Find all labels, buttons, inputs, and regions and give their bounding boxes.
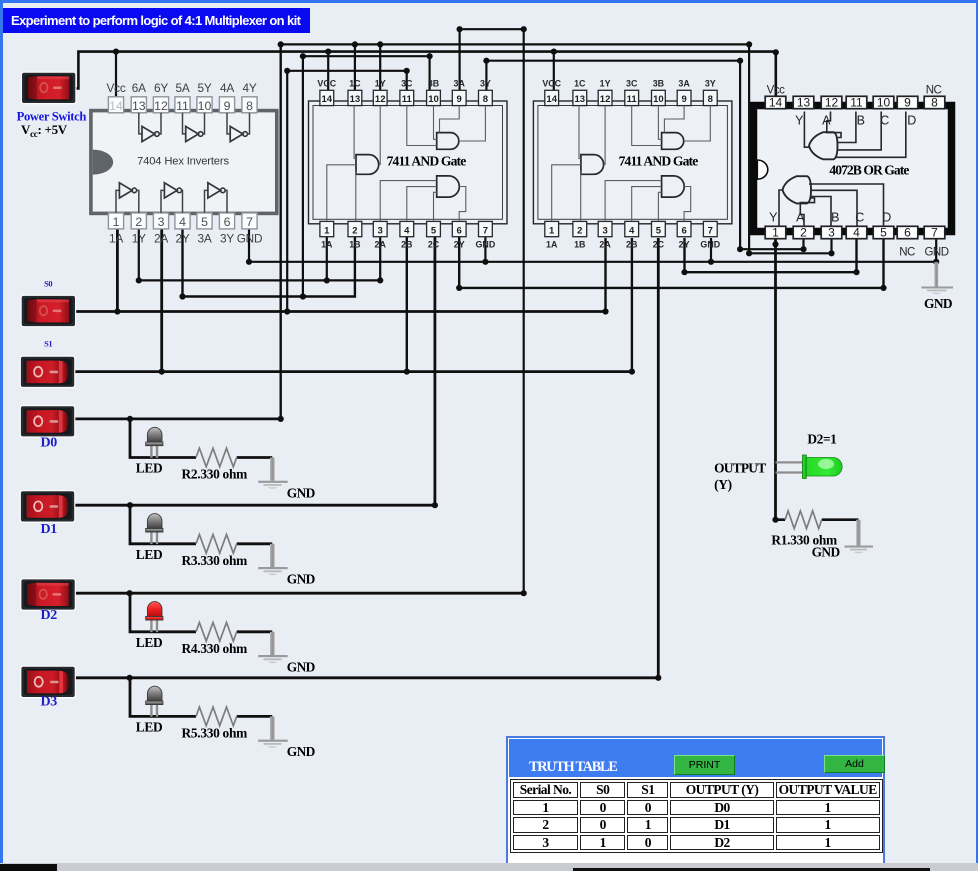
wire rail-A to U4 pin 3 input B	[749, 44, 831, 253]
wire S1 row up to U2 pin 4	[406, 237, 408, 372]
AND gate U2c (3A,3B,3C to 3Y)	[407, 106, 486, 150]
LED indicator for D2 (lit red)	[146, 602, 163, 633]
OR gate U4b (lower) with input routing	[779, 176, 884, 226]
rocker switch D1 (off)	[20, 490, 76, 523]
svg-text:12: 12	[825, 96, 839, 110]
svg-text:1Y: 1Y	[132, 232, 146, 246]
wire S1 switch row	[74, 370, 632, 373]
svg-text:13: 13	[132, 99, 146, 113]
svg-text:14: 14	[109, 99, 123, 113]
svg-text:10: 10	[428, 94, 439, 105]
wire D0 bus rail	[281, 43, 749, 45]
svg-text:7411 AND Gate: 7411 AND Gate	[619, 153, 699, 168]
svg-text:3C: 3C	[401, 78, 413, 88]
svg-text:14: 14	[546, 94, 557, 105]
svg-text:LED: LED	[136, 635, 163, 650]
ground symbol for output branch	[845, 520, 874, 554]
svg-text:D3: D3	[40, 694, 57, 709]
svg-text:GND: GND	[924, 246, 948, 258]
svg-text:2C: 2C	[653, 240, 665, 250]
svg-text:7411 AND Gate: 7411 AND Gate	[387, 153, 467, 168]
svg-text:2B: 2B	[401, 240, 412, 250]
svg-text:11: 11	[850, 96, 863, 110]
rocker switch S0 (on)	[21, 295, 77, 328]
svg-text:3C: 3C	[626, 78, 638, 88]
junction nodes on 3Y rail	[483, 58, 806, 253]
svg-text:9: 9	[457, 94, 462, 105]
wire D2 LED-resistor branch	[130, 593, 272, 632]
svg-text:14: 14	[769, 96, 783, 110]
svg-text:OUTPUT: OUTPUT	[714, 460, 766, 475]
wire S0 row up to U1 pin 1	[116, 230, 119, 312]
rocker switch S1 (off)	[20, 356, 76, 389]
svg-text:Y: Y	[769, 211, 778, 225]
junction nodes on D2-3A rail	[457, 26, 527, 32]
IC U1 7404 Hex Inverters	[17, 72, 953, 760]
svg-text:7: 7	[708, 225, 713, 236]
svg-text:Vcc: +5V: Vcc: +5V	[21, 122, 68, 139]
wire S1 row up to U3 pin 4	[631, 238, 633, 372]
wire D0 switch row	[74, 417, 281, 420]
wire D2 switch row	[75, 592, 524, 595]
svg-text:1C: 1C	[574, 78, 586, 88]
inverter gate U1-4 (pins 9 to 8)	[227, 113, 250, 142]
junction nodes on S0 row	[114, 308, 608, 314]
resistor R5 330 ohm for D3	[196, 707, 237, 726]
svg-text:6: 6	[457, 225, 462, 236]
svg-text:NC: NC	[899, 246, 915, 258]
svg-text:10: 10	[198, 99, 212, 113]
rocker switch D3 (off)	[20, 666, 76, 699]
wire S0 row up to U3 pin 3	[604, 238, 606, 312]
svg-text:4: 4	[179, 215, 186, 229]
svg-text:2A: 2A	[154, 232, 168, 246]
output LED legs	[776, 462, 805, 472]
wire D0 LED-resistor branch	[130, 419, 272, 458]
junction nodes on GND bus	[246, 259, 939, 265]
svg-text:2Y: 2Y	[175, 232, 189, 246]
wire D3 switch row	[75, 238, 659, 678]
ground symbol for D0 branch	[258, 458, 288, 489]
svg-text:5Y: 5Y	[197, 81, 211, 95]
junction nodes on D0 row	[127, 416, 284, 422]
svg-text:3B: 3B	[653, 78, 664, 88]
svg-text:GND: GND	[287, 572, 316, 587]
wire output resistor leads	[776, 518, 859, 521]
svg-text:1: 1	[113, 215, 120, 229]
svg-text:1: 1	[324, 225, 330, 236]
wire U4 pin 1 output Y down to output LED	[774, 239, 777, 520]
wire D2 rail to U2 pin 9	[460, 29, 524, 593]
AND gate U3c (3A,3B,3C to 3Y)	[632, 106, 711, 150]
wire U1 1Y output to U2 1A and 2A	[139, 230, 380, 281]
junction nodes on output Y wire	[772, 241, 778, 523]
svg-text:13: 13	[797, 96, 811, 110]
svg-text:14: 14	[322, 94, 333, 105]
svg-text:2: 2	[352, 225, 357, 236]
svg-text:8: 8	[708, 94, 713, 105]
svg-text:5: 5	[880, 226, 887, 240]
svg-text:GND: GND	[812, 544, 841, 559]
svg-text:4: 4	[404, 225, 410, 236]
junction nodes on S0-3C rail	[284, 68, 410, 74]
svg-text:S0: S0	[44, 279, 52, 288]
svg-text:9: 9	[681, 94, 686, 105]
IC U2 7411 triple 3-input AND gate	[309, 78, 508, 249]
AND gate U3b (2A,2B,2C to 2Y)	[605, 176, 691, 222]
svg-text:7: 7	[483, 225, 488, 236]
truth table panel	[506, 736, 885, 865]
svg-text:3Y: 3Y	[220, 232, 234, 246]
output LED (lit green) horizontal	[803, 455, 843, 479]
junction nodes on D0 bus rail	[278, 41, 835, 256]
svg-text:7404 Hex Inverters: 7404 Hex Inverters	[137, 155, 229, 167]
svg-text:1Y: 1Y	[600, 78, 611, 88]
svg-text:9: 9	[224, 99, 231, 113]
OR gate U4a (upper) with input routing	[804, 112, 905, 160]
svg-text:2B: 2B	[626, 240, 637, 250]
junction nodes on 2Y net	[179, 293, 306, 299]
svg-text:1B: 1B	[349, 240, 360, 250]
junction nodes on +5V rail	[113, 49, 779, 56]
svg-text:2C: 2C	[428, 240, 440, 250]
svg-text:GND: GND	[287, 660, 316, 675]
resistor R4 330 ohm for D2	[196, 623, 237, 642]
svg-text:13: 13	[575, 94, 586, 105]
window frame left border	[0, 0, 3, 863]
junction nodes on inverted-S1 rail	[300, 53, 433, 59]
ground symbol for D1 branch	[258, 544, 288, 575]
wire rail-A vertical down to D0 row	[280, 44, 282, 419]
svg-text:1B: 1B	[574, 240, 585, 250]
svg-text:6: 6	[224, 215, 231, 229]
svg-text:B: B	[857, 114, 865, 128]
ground symbol for D2 branch	[258, 632, 288, 663]
svg-text:5: 5	[201, 215, 208, 229]
rocker switch D0 (off)	[20, 405, 76, 438]
horizontal scrollbar	[0, 863, 978, 871]
ground symbol below U4 pin 7	[922, 262, 954, 294]
svg-text:(Y): (Y)	[714, 477, 732, 492]
wire inverted-S1 rail to U2 pin 10	[303, 56, 430, 296]
svg-text:10: 10	[653, 94, 664, 105]
wire U1 2Y output to U2 1B	[183, 230, 355, 297]
svg-text:D: D	[907, 114, 916, 128]
svg-text:1A: 1A	[546, 240, 558, 250]
svg-text:3: 3	[158, 215, 165, 229]
ground symbol for D3 branch	[258, 716, 288, 747]
svg-text:GND: GND	[924, 296, 953, 311]
svg-text:GND: GND	[700, 240, 720, 250]
wire +5V power rail from power switch	[75, 52, 776, 97]
svg-text:8: 8	[246, 99, 253, 113]
wire S0 rail to U2 pin 11	[287, 71, 407, 312]
junction nodes on D1 row	[127, 502, 438, 508]
svg-text:2A: 2A	[599, 240, 611, 250]
svg-text:LED: LED	[136, 547, 163, 562]
inverter gate U1-3 (pins 5 to 6)	[205, 183, 228, 213]
resistor R2 330 ohm for D0	[196, 448, 237, 467]
wire S0 switch row	[75, 310, 606, 313]
wire Vcc drop to U1 pin 14	[115, 52, 117, 97]
svg-text:2A: 2A	[375, 240, 387, 250]
svg-text:7: 7	[931, 226, 938, 240]
svg-text:6A: 6A	[132, 81, 146, 95]
svg-text:R2.330 ohm: R2.330 ohm	[182, 467, 248, 482]
svg-text:4: 4	[629, 225, 635, 236]
svg-text:LED: LED	[136, 461, 163, 476]
svg-text:6: 6	[904, 226, 911, 240]
svg-text:3: 3	[602, 225, 607, 236]
svg-text:8: 8	[931, 96, 938, 110]
svg-text:D1: D1	[40, 522, 57, 537]
wire D3 LED-resistor branch	[130, 678, 272, 717]
svg-text:1: 1	[772, 226, 779, 240]
svg-text:4A: 4A	[220, 81, 234, 95]
svg-text:11: 11	[627, 94, 638, 105]
resistor R1 330 ohm on output	[785, 511, 822, 529]
title bar: Experiment to perform logic of 4:1 Multiplexer on kit	[3, 8, 310, 34]
junction nodes on S1 row	[159, 369, 635, 375]
svg-text:12: 12	[600, 94, 611, 105]
svg-text:3A: 3A	[678, 78, 690, 88]
svg-text:2: 2	[800, 226, 807, 240]
wire U2 2Y output to U4 pin 5 input D	[459, 237, 883, 288]
svg-text:3B: 3B	[428, 78, 439, 88]
svg-text:1: 1	[549, 225, 555, 236]
svg-text:Vcc: Vcc	[106, 81, 125, 95]
resistor R3 330 ohm for D1	[196, 535, 237, 554]
LED indicator for D0	[146, 427, 163, 458]
truth table blue header	[509, 739, 882, 777]
svg-text:D0: D0	[40, 435, 57, 450]
IC U3 7411 triple 3-input AND gate	[533, 78, 732, 249]
svg-text:10: 10	[877, 96, 891, 110]
svg-text:2Y: 2Y	[679, 240, 690, 250]
window frame right border	[976, 0, 978, 863]
svg-text:GND: GND	[287, 485, 316, 500]
svg-text:12: 12	[375, 94, 386, 105]
inverter gate U1-5 (pins 11 to 10)	[183, 113, 205, 142]
svg-text:1A: 1A	[109, 232, 123, 246]
svg-text:4: 4	[853, 226, 860, 240]
svg-text:7: 7	[246, 215, 253, 229]
svg-text:12: 12	[154, 99, 168, 113]
svg-text:VCC: VCC	[317, 78, 336, 88]
svg-text:Y: Y	[795, 114, 804, 128]
junction nodes on U2-2Y net	[456, 285, 887, 291]
svg-text:3Y: 3Y	[480, 78, 491, 88]
svg-text:1A: 1A	[321, 240, 333, 250]
LED indicator for D1	[146, 514, 163, 545]
wire D1 switch row	[74, 237, 435, 505]
Add button	[824, 755, 885, 774]
svg-text:LED: LED	[136, 720, 163, 735]
wire rail-A drop to U2 pin 12	[379, 44, 381, 90]
svg-text:2Y: 2Y	[454, 240, 465, 250]
wire GND bus	[249, 230, 936, 262]
svg-text:D2: D2	[40, 608, 57, 623]
svg-text:3A: 3A	[197, 232, 211, 246]
rocker switch D2 (on)	[20, 578, 76, 611]
svg-text:1Y: 1Y	[375, 78, 386, 88]
svg-text:9: 9	[904, 96, 911, 110]
svg-text:NC: NC	[926, 85, 942, 97]
svg-text:6Y: 6Y	[154, 81, 168, 95]
svg-text:GND: GND	[237, 232, 263, 246]
wire U3 2Y output to U4 pin 4 input C	[685, 238, 857, 272]
svg-text:GND: GND	[287, 744, 316, 759]
junction nodes on 1Y net	[136, 277, 384, 283]
svg-text:8: 8	[483, 94, 488, 105]
inverter gate U1-2 (pins 3 to 4)	[161, 183, 183, 213]
wire S1 row up to U1 pin 3	[160, 230, 163, 372]
svg-text:R3.330 ohm: R3.330 ohm	[182, 553, 248, 568]
svg-text:Vcc: Vcc	[767, 85, 785, 97]
svg-text:R4.330 ohm: R4.330 ohm	[182, 641, 248, 656]
svg-text:6: 6	[681, 225, 686, 236]
svg-text:2: 2	[135, 215, 142, 229]
truth table data table	[510, 779, 883, 853]
svg-text:11: 11	[402, 94, 413, 105]
svg-text:3: 3	[378, 225, 383, 236]
AND gate U3a (1A,1B,1C to 1Y)	[552, 106, 605, 222]
IC U4 4072B dual 4-input OR gate	[754, 96, 952, 240]
inverter gate U1-1 (pins 1 to 2)	[116, 183, 139, 213]
junction nodes on D2 row	[127, 590, 527, 596]
junction nodes on D3 row	[127, 675, 662, 681]
AND gate U2b (2A,2B,2C to 2Y)	[380, 176, 466, 222]
svg-text:S1: S1	[44, 339, 52, 348]
svg-text:4Y: 4Y	[242, 81, 256, 95]
svg-text:GND: GND	[476, 240, 496, 250]
svg-text:3A: 3A	[454, 78, 466, 88]
svg-text:5: 5	[656, 225, 662, 236]
wire D1 LED-resistor branch	[130, 505, 272, 544]
svg-text:VCC: VCC	[542, 78, 561, 88]
svg-text:R5.330 ohm: R5.330 ohm	[182, 725, 248, 740]
svg-text:2: 2	[577, 225, 582, 236]
wire rail-A drop to U2 pin 13	[354, 44, 356, 90]
PRINT button	[674, 755, 735, 775]
LED indicator for D3	[146, 686, 163, 717]
junction nodes on U3-2Y net	[681, 269, 859, 275]
inverter gate U1-6 (pins 13 to 12)	[139, 113, 161, 142]
svg-text:5A: 5A	[175, 81, 189, 95]
svg-text:11: 11	[176, 99, 189, 113]
window frame top border	[0, 0, 978, 3]
svg-text:1C: 1C	[349, 78, 361, 88]
svg-text:13: 13	[350, 94, 361, 105]
svg-text:5: 5	[431, 225, 437, 236]
svg-text:3: 3	[828, 226, 835, 240]
power rocker switch SW1 (on)	[21, 72, 77, 105]
svg-text:3Y: 3Y	[705, 78, 716, 88]
wire U2 3Y output to U4 pin 2 input A	[486, 61, 803, 250]
svg-text:B: B	[831, 211, 839, 225]
svg-text:4072B OR Gate: 4072B OR Gate	[829, 162, 909, 177]
AND gate U2a (1A,1B,1C to 1Y)	[327, 106, 380, 222]
svg-text:D2=1: D2=1	[807, 431, 836, 446]
wire Vcc drop to U2 pin 14	[327, 52, 329, 91]
wire Vcc drop to U3 pin 14	[553, 52, 555, 91]
